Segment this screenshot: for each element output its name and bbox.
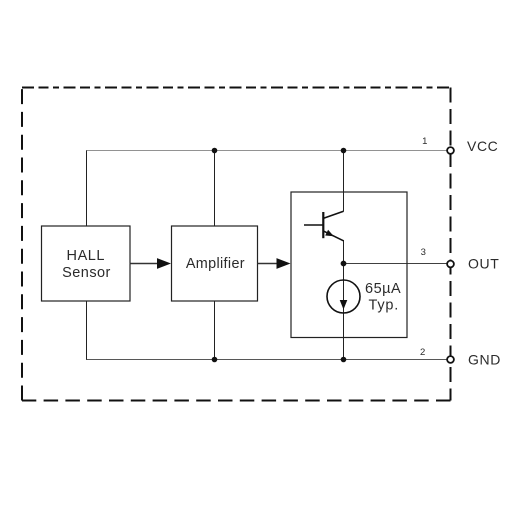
- junction dot GND/current source: [341, 357, 347, 363]
- svg-text:HALL: HALL: [67, 248, 105, 264]
- pin 2 circle (GND): [447, 356, 454, 363]
- wire emitter / current source to GND rail: [343, 240, 345, 360]
- block HALL Sensor box: [42, 226, 131, 301]
- block Amplifier box: [172, 226, 258, 301]
- junction dot GND/amplifier: [212, 357, 218, 363]
- dashed IC boundary right: [450, 88, 452, 401]
- current source I1 circle: [327, 280, 360, 313]
- wire VCC rail: [86, 150, 447, 152]
- pin 3 circle (OUT): [447, 261, 454, 268]
- svg-text:2: 2: [420, 347, 425, 358]
- wire transistor collector to VCC rail: [343, 151, 345, 212]
- svg-text:3: 3: [421, 247, 426, 258]
- transistor Q1 collector lead: [324, 211, 344, 218]
- arrow Amplifier to output stage: [258, 263, 278, 265]
- svg-text:1: 1: [422, 136, 427, 147]
- dashed IC boundary left: [21, 88, 23, 401]
- svg-text:OUT: OUT: [468, 256, 499, 272]
- dashed IC boundary top: [22, 87, 451, 89]
- svg-text:Sensor: Sensor: [62, 265, 111, 281]
- wire OUT line: [344, 263, 448, 265]
- svg-text:VCC: VCC: [467, 138, 498, 154]
- block output stage box: [291, 192, 407, 338]
- pin 1 circle (VCC): [447, 147, 454, 154]
- wire amplifier to VCC rail: [214, 151, 216, 227]
- wire GND rail: [86, 359, 447, 361]
- svg-text:Amplifier: Amplifier: [186, 256, 245, 272]
- svg-text:65µA: 65µA: [365, 281, 401, 297]
- wire amplifier to GND rail: [214, 301, 216, 360]
- junction dot VCC/amplifier: [212, 148, 218, 154]
- svg-text:Typ.: Typ.: [368, 298, 399, 314]
- current source I1 arrowhead: [340, 300, 348, 310]
- arrow HALL Sensor to Amplifier: [130, 263, 159, 265]
- transistor Q1 base bar: [322, 212, 324, 238]
- junction dot OUT node: [341, 261, 347, 267]
- transistor Q1 base lead: [304, 224, 323, 226]
- svg-text:GND: GND: [468, 352, 501, 368]
- transistor Q1 emitter arrowhead: [325, 230, 334, 237]
- transistor Q1 emitter lead: [324, 231, 344, 241]
- junction dot VCC/transistor: [341, 148, 347, 154]
- wire HALL sensor to GND rail: [86, 301, 88, 360]
- dashed IC boundary bottom: [22, 400, 451, 402]
- wire HALL sensor to VCC rail: [86, 151, 88, 227]
